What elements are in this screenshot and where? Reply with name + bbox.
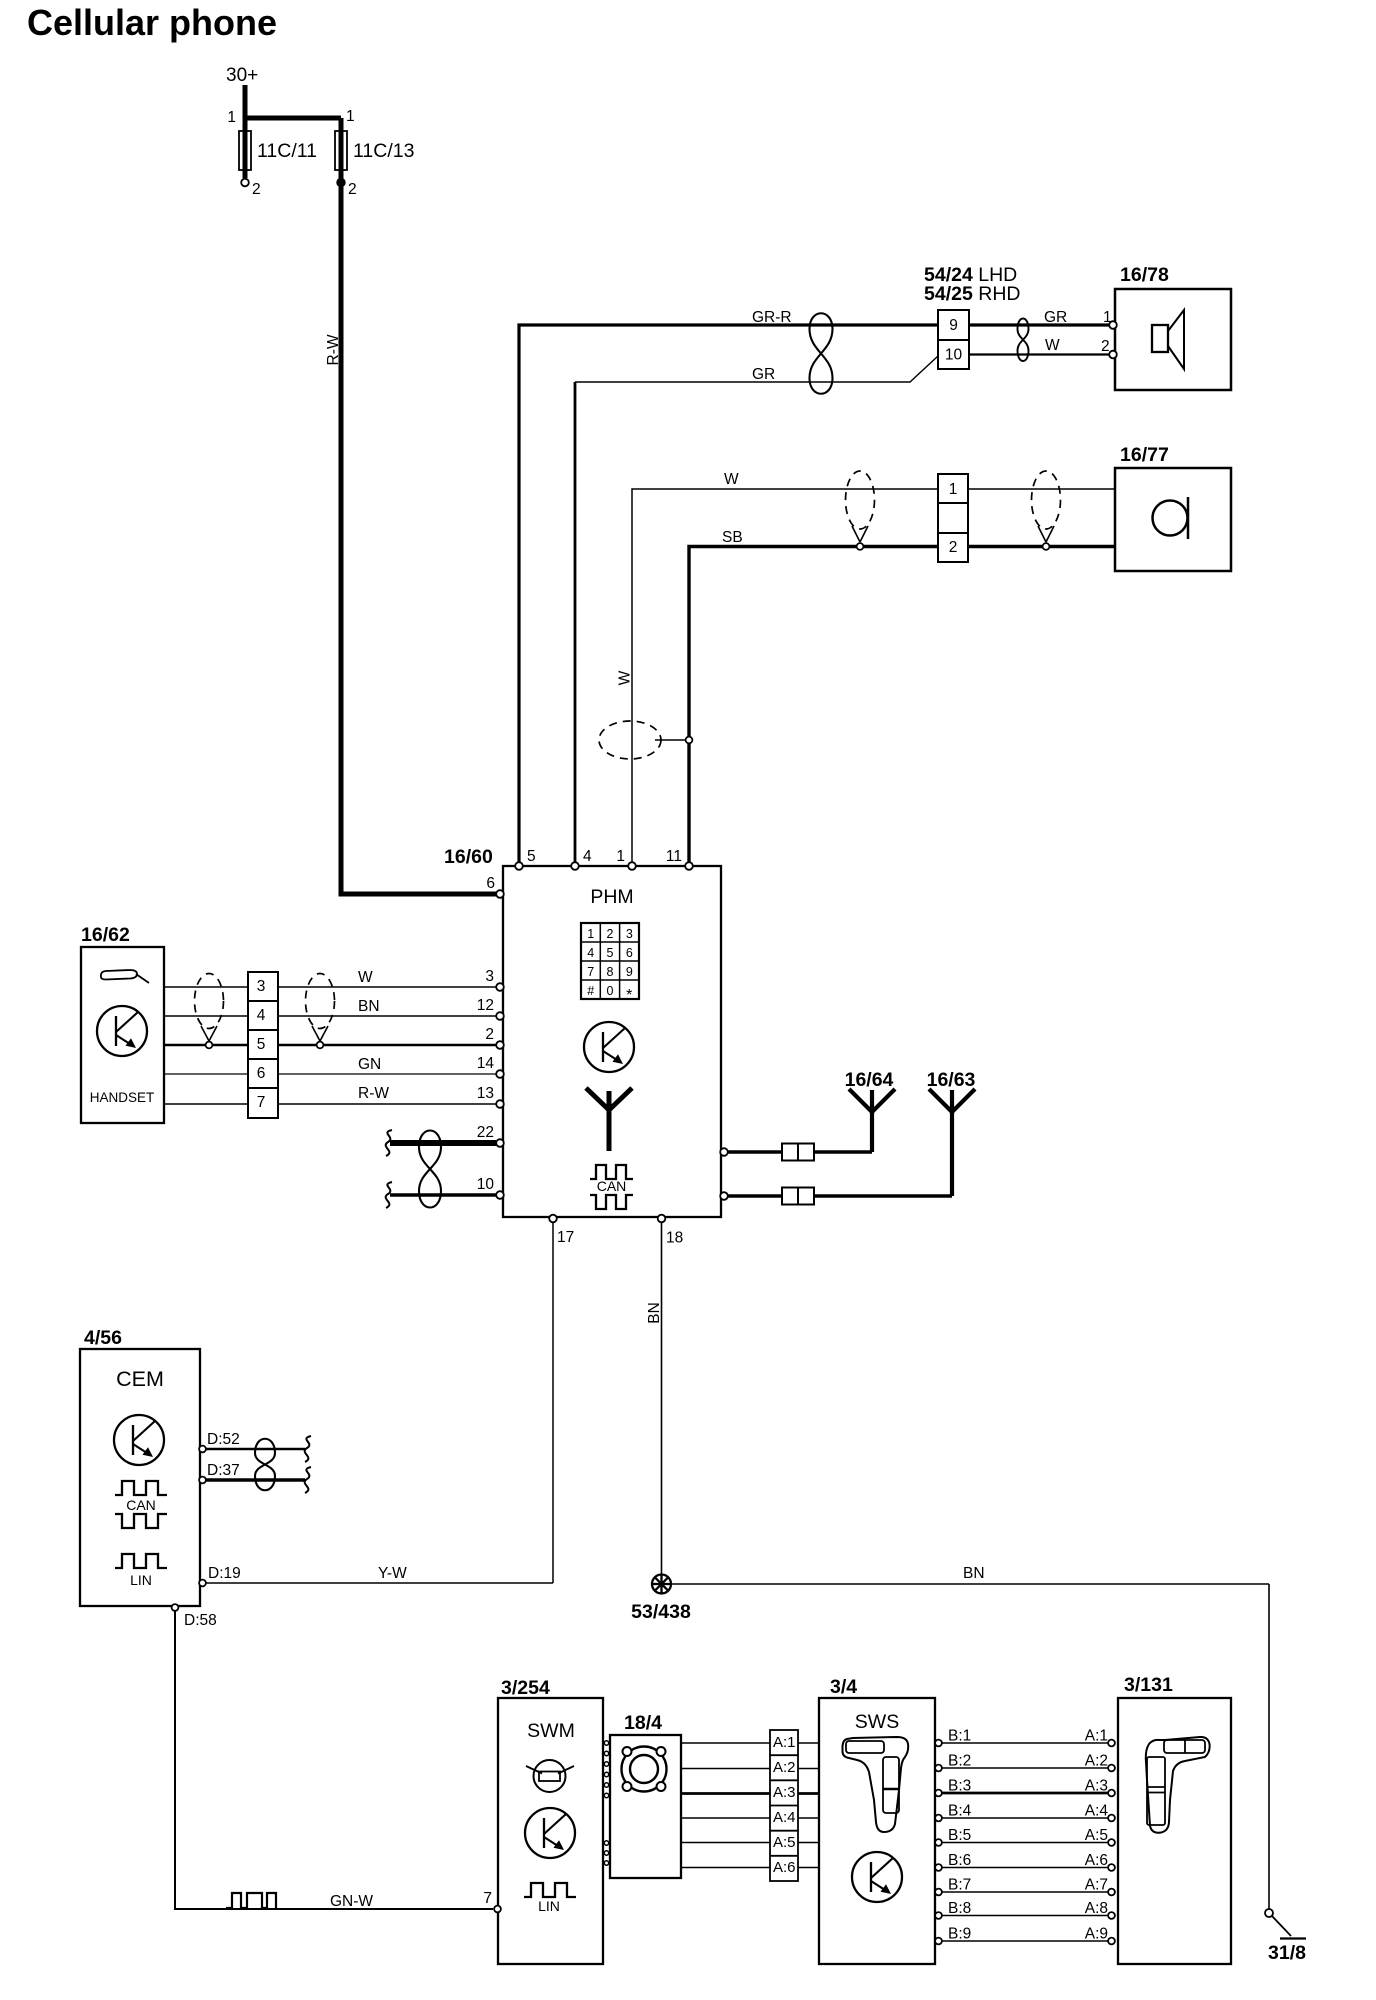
svg-text:LIN: LIN xyxy=(130,1572,152,1588)
svg-text:Y-W: Y-W xyxy=(378,1565,407,1582)
svg-text:B:4: B:4 xyxy=(948,1803,972,1820)
svg-text:11: 11 xyxy=(666,848,682,865)
svg-text:2: 2 xyxy=(949,539,958,556)
svg-text:A:1: A:1 xyxy=(1085,1728,1108,1745)
svg-text:18: 18 xyxy=(666,1230,683,1247)
svg-text:31/8: 31/8 xyxy=(1268,1942,1306,1964)
svg-text:13: 13 xyxy=(477,1085,494,1102)
svg-text:2: 2 xyxy=(348,181,357,198)
svg-text:W: W xyxy=(724,471,739,488)
svg-text:HANDSET: HANDSET xyxy=(90,1090,155,1105)
svg-text:D:19: D:19 xyxy=(208,1565,241,1582)
svg-text:A:5: A:5 xyxy=(1085,1827,1108,1844)
svg-text:3: 3 xyxy=(257,978,266,995)
svg-text:16/77: 16/77 xyxy=(1120,444,1169,466)
svg-text:B:8: B:8 xyxy=(948,1900,971,1917)
svg-text:3: 3 xyxy=(626,927,633,941)
svg-text:4: 4 xyxy=(257,1007,266,1024)
svg-text:7: 7 xyxy=(483,1890,492,1907)
svg-text:PHM: PHM xyxy=(590,886,633,908)
svg-text:3: 3 xyxy=(485,968,494,985)
svg-text:B:6: B:6 xyxy=(948,1852,971,1869)
svg-text:16/60: 16/60 xyxy=(444,846,493,868)
svg-text:9: 9 xyxy=(626,965,633,979)
svg-text:6: 6 xyxy=(486,875,495,892)
svg-text:8: 8 xyxy=(607,965,614,979)
svg-text:16/63: 16/63 xyxy=(927,1069,976,1091)
svg-text:A:3: A:3 xyxy=(773,1784,796,1801)
svg-text:A:3: A:3 xyxy=(1085,1778,1108,1795)
svg-text:7: 7 xyxy=(587,965,594,979)
svg-text:Cellular phone: Cellular phone xyxy=(27,2,277,43)
svg-text:3/4: 3/4 xyxy=(830,1676,857,1698)
svg-text:2: 2 xyxy=(607,927,614,941)
svg-text:17: 17 xyxy=(557,1229,574,1246)
svg-text:SWM: SWM xyxy=(527,1720,575,1742)
svg-text:LIN: LIN xyxy=(538,1898,560,1914)
svg-text:6: 6 xyxy=(257,1065,266,1082)
svg-text:5: 5 xyxy=(257,1036,266,1053)
svg-text:2: 2 xyxy=(1101,338,1110,355)
svg-text:A:7: A:7 xyxy=(1085,1877,1108,1894)
svg-text:#: # xyxy=(587,984,594,998)
svg-text:16/78: 16/78 xyxy=(1120,264,1169,286)
svg-text:A:5: A:5 xyxy=(773,1834,796,1851)
svg-text:GN-W: GN-W xyxy=(330,1893,373,1910)
svg-text:GR: GR xyxy=(752,366,775,383)
svg-text:GR-R: GR-R xyxy=(752,309,792,326)
svg-text:A:6: A:6 xyxy=(773,1859,796,1876)
svg-text:4: 4 xyxy=(587,946,594,960)
svg-text:4: 4 xyxy=(583,848,592,865)
svg-text:14: 14 xyxy=(477,1055,495,1072)
svg-text:0: 0 xyxy=(607,984,614,998)
svg-text:W: W xyxy=(617,670,634,685)
svg-text:1: 1 xyxy=(346,108,355,125)
svg-text:A:9: A:9 xyxy=(1085,1926,1108,1943)
svg-text:11C/13: 11C/13 xyxy=(353,140,414,162)
svg-text:D:58: D:58 xyxy=(184,1612,217,1629)
svg-text:6: 6 xyxy=(626,946,633,960)
svg-text:CEM: CEM xyxy=(116,1367,164,1391)
svg-text:CAN: CAN xyxy=(597,1178,627,1194)
svg-text:1: 1 xyxy=(949,481,958,498)
svg-text:16/62: 16/62 xyxy=(81,924,130,946)
svg-text:GN: GN xyxy=(358,1056,381,1073)
svg-text:B:2: B:2 xyxy=(948,1753,971,1770)
svg-text:R-W: R-W xyxy=(358,1085,389,1102)
svg-text:30+: 30+ xyxy=(226,65,258,86)
svg-text:3/131: 3/131 xyxy=(1124,1674,1173,1696)
svg-text:3/254: 3/254 xyxy=(501,1677,550,1699)
svg-text:10: 10 xyxy=(477,1176,495,1193)
svg-text:4/56: 4/56 xyxy=(84,1327,122,1349)
svg-text:R-W: R-W xyxy=(325,334,342,365)
svg-text:22: 22 xyxy=(477,1124,494,1141)
svg-text:2: 2 xyxy=(252,181,261,198)
svg-text:BN: BN xyxy=(963,1565,985,1582)
svg-text:1: 1 xyxy=(587,927,594,941)
svg-text:BN: BN xyxy=(358,998,380,1015)
svg-text:2: 2 xyxy=(485,1026,494,1043)
svg-text:7: 7 xyxy=(257,1094,266,1111)
svg-text:10: 10 xyxy=(945,347,963,364)
svg-text:W: W xyxy=(358,969,373,986)
svg-text:54/25 RHD: 54/25 RHD xyxy=(924,283,1020,305)
svg-text:9: 9 xyxy=(949,317,958,334)
svg-text:18/4: 18/4 xyxy=(624,1712,662,1734)
svg-text:SWS: SWS xyxy=(855,1711,899,1733)
svg-text:53/438: 53/438 xyxy=(631,1601,691,1623)
svg-text:A:6: A:6 xyxy=(1085,1852,1108,1869)
svg-text:D:37: D:37 xyxy=(207,1462,240,1479)
svg-text:B:7: B:7 xyxy=(948,1877,971,1894)
svg-text:BN: BN xyxy=(646,1302,663,1324)
svg-text:*: * xyxy=(626,987,632,1004)
svg-text:A:2: A:2 xyxy=(773,1759,796,1776)
svg-text:12: 12 xyxy=(477,997,494,1014)
svg-text:A:4: A:4 xyxy=(1085,1803,1109,1820)
svg-text:A:8: A:8 xyxy=(1085,1900,1108,1917)
svg-text:1: 1 xyxy=(227,109,236,126)
svg-text:GR: GR xyxy=(1044,309,1067,326)
svg-text:11C/11: 11C/11 xyxy=(257,140,317,162)
svg-text:W: W xyxy=(1045,337,1060,354)
svg-text:5: 5 xyxy=(527,848,536,865)
svg-text:D:52: D:52 xyxy=(207,1431,240,1448)
svg-text:A:1: A:1 xyxy=(773,1734,796,1751)
svg-text:5: 5 xyxy=(607,946,614,960)
svg-text:16/64: 16/64 xyxy=(845,1069,894,1091)
svg-text:B:3: B:3 xyxy=(948,1778,971,1795)
svg-text:A:2: A:2 xyxy=(1085,1753,1108,1770)
svg-text:CAN: CAN xyxy=(126,1497,156,1513)
svg-text:SB: SB xyxy=(722,529,743,546)
svg-text:B:5: B:5 xyxy=(948,1827,971,1844)
svg-text:B:1: B:1 xyxy=(948,1728,971,1745)
svg-text:1: 1 xyxy=(616,848,625,865)
svg-text:A:4: A:4 xyxy=(773,1809,796,1826)
svg-text:B:9: B:9 xyxy=(948,1926,971,1943)
